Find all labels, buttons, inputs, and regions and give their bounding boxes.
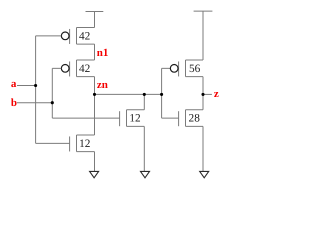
- wire net b to M4 gate: [52, 117, 119, 119]
- wire M6 source to ground: [202, 126, 204, 171]
- wire M5 source down to z node: [202, 77, 204, 95]
- wire net b vertical (M2 gate to M4 gate): [51, 68, 53, 118]
- svg-text:28: 28: [189, 113, 201, 125]
- pmos M1 (gate a) drain lead: [77, 27, 95, 29]
- nmos M3 (gate a) channel: [76, 135, 78, 152]
- ground 3 ground symbol: [200, 171, 209, 177]
- wire net b to M2 gate bubble: [52, 67, 61, 69]
- pmos M2 (gate b) channel: [76, 60, 78, 77]
- wire z node down to M6 drain: [202, 94, 204, 109]
- nmos M6 (gate zn) channel: [185, 110, 187, 127]
- nmos M3 (gate a) drain lead: [77, 134, 95, 136]
- wire node n1 (M1 source to M2 drain): [94, 44, 96, 60]
- svg-text:n1: n1: [97, 47, 109, 59]
- wire M4 drain up to zn: [143, 94, 145, 109]
- wire net a to M1 gate bubble: [36, 35, 62, 37]
- wire zn node down to M3 drain: [94, 94, 96, 135]
- svg-text:56: 56: [189, 63, 201, 75]
- pmos M5 (gate zn) drain lead: [186, 59, 204, 61]
- svg-text:12: 12: [129, 113, 141, 125]
- z node junction junction dot: [201, 93, 204, 96]
- net b junction junction dot: [51, 101, 54, 104]
- pmos M1 (gate a) gate bubble: [61, 32, 69, 40]
- zn junction at M4 drain junction dot: [143, 93, 146, 96]
- svg-text:12: 12: [79, 138, 91, 150]
- wire zn to M5 gate bubble: [162, 67, 171, 69]
- VDD rail 1 power symbol: [86, 11, 104, 13]
- pmos M1 (gate a) source lead: [77, 43, 95, 45]
- wire output z stub: [203, 93, 212, 95]
- wire input b: [17, 102, 52, 104]
- wire M3 source to ground: [94, 152, 96, 172]
- VDD rail 2 power symbol: [194, 10, 213, 12]
- svg-text:b: b: [11, 97, 17, 109]
- pmos M1 (gate a) channel: [76, 28, 78, 45]
- pmos M5 (gate zn) source lead: [186, 76, 204, 78]
- wire net a vertical (M1 gate to M3 gate): [35, 36, 37, 144]
- net a junction junction dot: [34, 84, 37, 87]
- svg-text:42: 42: [79, 63, 91, 75]
- svg-text:a: a: [11, 78, 17, 90]
- nmos M4 (gate b) channel: [126, 110, 128, 127]
- svg-text:42: 42: [79, 31, 91, 43]
- pmos M2 (gate b) gate bubble: [61, 65, 69, 73]
- pmos M2 (gate b) drain lead: [77, 59, 95, 61]
- wire zn to M6 gate: [162, 117, 179, 119]
- svg-text:z: z: [214, 88, 219, 100]
- wire M4 source to ground: [143, 126, 145, 171]
- nmos M4 (gate b) source lead: [127, 125, 145, 127]
- ground 2 ground symbol: [141, 171, 150, 177]
- wire M2 source down to zn node: [94, 77, 96, 95]
- zn junction at M2/M3 drains junction dot: [93, 93, 96, 96]
- wire net a to M3 gate: [36, 142, 70, 144]
- wire VDD1 stem: [94, 12, 96, 28]
- pmos M5 (gate zn) gate bar: [178, 61, 180, 76]
- pmos M1 (gate a) gate bar: [69, 29, 71, 44]
- nmos M3 (gate a) gate bar: [69, 136, 71, 151]
- wire zn horizontal: [95, 93, 162, 95]
- svg-text:zn: zn: [97, 79, 108, 91]
- nmos M4 (gate b) drain lead: [127, 109, 145, 111]
- nmos M6 (gate zn) drain lead: [186, 109, 204, 111]
- nmos M6 (gate zn) gate bar: [178, 111, 180, 126]
- nmos M3 (gate a) source lead: [77, 151, 95, 153]
- ground 1 ground symbol: [90, 171, 99, 177]
- pmos M5 (gate zn) gate bubble: [170, 65, 178, 73]
- CMOS OR gate schematic: 2-input NOR (M1,M2,M3,M4) driving inverter (M5,M6): [0, 0, 231, 189]
- zn junction at inverter input junction dot: [160, 93, 163, 96]
- pmos M2 (gate b) source lead: [77, 76, 95, 78]
- nmos M4 (gate b) gate bar: [119, 111, 121, 126]
- wire input a: [17, 85, 36, 87]
- nmos M6 (gate zn) source lead: [186, 125, 204, 127]
- pmos M2 (gate b) gate bar: [69, 61, 71, 76]
- wire VDD2 stem: [202, 11, 204, 60]
- wire zn to inverter gates vertical: [161, 68, 163, 118]
- pmos M5 (gate zn) channel: [185, 60, 187, 77]
